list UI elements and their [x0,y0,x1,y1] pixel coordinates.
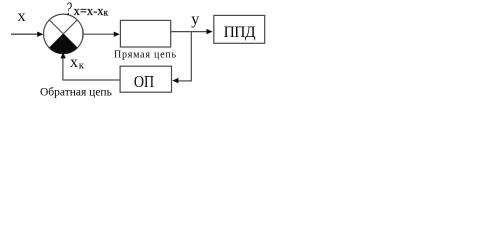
summing junction circle [44,14,84,54]
wire: feedback vertical up to circle [62,58,64,81]
summing junction X diagonal 2 [49,20,77,48]
OP block [120,66,171,92]
summing junction filled bottom quadrant [49,34,77,54]
svg-text:ППД: ППД [224,24,256,41]
tick at circle output [82,29,84,38]
arrowhead into summing junction [37,32,43,37]
svg-text:Обратная цепь: Обратная цепь [40,86,112,98]
arrowhead up into summing junction [61,52,66,58]
arrowhead into forward block [114,32,120,37]
svg-text:х: х [18,8,26,25]
svg-text:х=х-хк: х=х-хк [74,4,109,18]
wire: input line x [11,33,39,35]
wire: forward block to PPD block [171,31,207,33]
svg-text:ОП: ОП [134,73,154,91]
PPD block [214,15,265,43]
svg-text:y: y [191,11,199,28]
svg-text:?: ? [66,0,72,20]
svg-text:хк: хк [70,54,85,72]
wire: OP block to feedback corner [63,79,120,81]
wire: branch down from node [190,32,192,82]
summing junction X diagonal 1 [49,20,77,48]
arrowhead into OP block [172,78,178,83]
wire: circle to forward block [84,33,115,35]
arrowhead into PPD block [207,29,213,34]
svg-text:Прямая цепь: Прямая цепь [114,49,176,60]
forward path block (empty) [120,20,170,47]
wire: branch to OP block [178,80,192,82]
